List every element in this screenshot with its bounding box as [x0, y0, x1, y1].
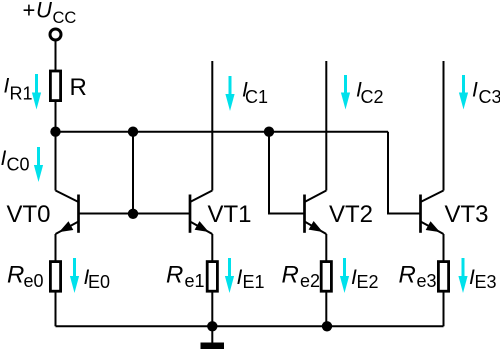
svg-text:+: +: [23, 0, 36, 23]
svg-text:VT1: VT1: [208, 201, 252, 228]
svg-text:E3: E3: [475, 272, 497, 292]
svg-text:I: I: [472, 79, 478, 102]
wire VT3 collector: [443, 61, 445, 191]
label R: [70, 74, 87, 101]
current arrow IE1: [225, 258, 234, 293]
svg-text:C1: C1: [245, 87, 268, 107]
wire Re3 to ground bus: [443, 291, 445, 326]
svg-text:VT2: VT2: [329, 201, 373, 228]
label IC1: [242, 79, 268, 107]
label Re2: [282, 262, 321, 292]
svg-text:R: R: [166, 262, 183, 289]
label IE1: [237, 266, 265, 292]
junction node A at R bottom: [50, 127, 60, 137]
svg-text:e2: e2: [300, 271, 320, 291]
current arrow IE3: [458, 258, 467, 293]
wire VT1 collector: [211, 61, 213, 191]
wire Ucc terminal to R top: [55, 40, 57, 71]
label IE2: [351, 266, 379, 292]
current arrow IC1: [225, 76, 234, 111]
label VT0: [7, 201, 51, 228]
current arrow IE2: [340, 258, 349, 293]
wire ground stub: [211, 326, 213, 342]
label Re1: [166, 262, 205, 292]
svg-text:C3: C3: [479, 87, 500, 107]
current arrow IC3: [459, 75, 468, 110]
wire VT0 emitter to Re0: [55, 234, 57, 262]
label IE0: [84, 266, 111, 292]
junction node A tap to VT0/VT1 bases: [128, 127, 138, 137]
label Re3: [399, 262, 437, 292]
resistor Re1: [207, 262, 217, 292]
current arrow IC2: [341, 75, 350, 110]
wire VT0 collector from node A: [55, 132, 57, 191]
svg-text:e3: e3: [417, 271, 437, 291]
wire VT2 collector: [325, 61, 327, 191]
resistor Re2: [321, 262, 331, 292]
svg-text:E1: E1: [243, 272, 265, 292]
wire base bus top (node A) horizontal: [56, 131, 389, 133]
wire Re2 to ground bus: [325, 291, 327, 326]
label VT1: [208, 201, 252, 228]
wire Re0 to ground bus: [55, 291, 57, 326]
label +Ucc: [23, 0, 77, 27]
wire VT3 base tap: [388, 132, 421, 214]
label IC0: [1, 147, 30, 175]
transistor VT2: [305, 191, 327, 235]
label VT3: [445, 201, 489, 228]
label IC2: [356, 79, 384, 107]
transistor VT0: [56, 191, 79, 235]
wire VT2 base tap: [269, 132, 305, 214]
current arrow IR1: [32, 74, 41, 110]
label IE3: [469, 266, 497, 292]
junction ground bus junction under Re1: [207, 321, 217, 331]
wire Re1 to ground bus: [211, 291, 213, 326]
transistor VT1: [190, 191, 212, 235]
svg-text:E2: E2: [357, 272, 379, 292]
resistor Re0: [50, 262, 60, 292]
junction node A tap to VT2 base: [264, 127, 274, 137]
svg-text:R: R: [70, 74, 87, 101]
junction ground bus junction under Re2: [322, 321, 332, 331]
transistor VT3: [421, 191, 444, 235]
wire VT3 emitter to Re3: [443, 234, 445, 262]
svg-text:e1: e1: [185, 271, 205, 291]
svg-text:VT0: VT0: [7, 201, 51, 228]
junction base bus junction: [128, 209, 138, 219]
svg-text:C0: C0: [7, 155, 30, 175]
svg-text:CC: CC: [53, 9, 77, 27]
current arrow IE0: [70, 258, 79, 293]
label Re0: [7, 262, 44, 292]
svg-text:R: R: [7, 262, 24, 289]
wire VT0-VT1 base link vertical: [132, 132, 134, 214]
power terminal +Ucc: [50, 29, 61, 40]
svg-text:e0: e0: [24, 271, 44, 291]
ground: [201, 343, 225, 349]
wire VT1 emitter to Re1: [211, 234, 213, 262]
label VT2: [329, 201, 373, 228]
svg-text:U: U: [36, 0, 52, 23]
label IR1: [4, 74, 33, 103]
svg-text:R: R: [282, 262, 299, 289]
wire R bottom to node A: [55, 100, 57, 132]
wire emitter ground bus: [56, 325, 444, 327]
svg-text:E0: E0: [88, 272, 110, 292]
resistor Re3: [438, 262, 448, 292]
svg-text:VT3: VT3: [445, 201, 489, 228]
svg-text:R1: R1: [10, 83, 33, 103]
label IC3: [472, 79, 500, 107]
wire VT0 base to VT1 base: [79, 213, 191, 215]
wire VT2 emitter to Re2: [325, 234, 327, 262]
svg-text:R: R: [399, 262, 416, 289]
resistor R: [50, 71, 60, 101]
current arrow IC0: [34, 147, 43, 182]
svg-text:C2: C2: [361, 87, 384, 107]
